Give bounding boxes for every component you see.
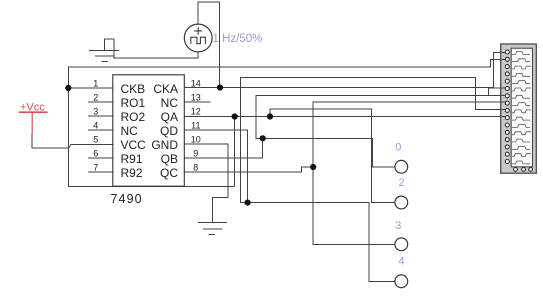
svg-text:GND: GND <box>151 138 178 152</box>
svg-text:RO2: RO2 <box>121 110 146 124</box>
svg-text:8: 8 <box>193 163 198 173</box>
svg-text:7490: 7490 <box>111 192 143 206</box>
svg-text:CKA: CKA <box>153 82 178 96</box>
svg-text:4: 4 <box>93 121 98 131</box>
svg-text:3: 3 <box>93 107 98 117</box>
svg-text:9: 9 <box>193 149 198 159</box>
svg-text:QB: QB <box>161 152 178 166</box>
svg-text:NC: NC <box>121 124 139 138</box>
svg-text:VCC: VCC <box>121 138 147 152</box>
svg-text:RO1: RO1 <box>121 96 146 110</box>
svg-text:6: 6 <box>93 149 98 159</box>
svg-text:1 Hz/50%: 1 Hz/50% <box>213 33 263 45</box>
svg-text:QA: QA <box>161 110 178 124</box>
svg-text:7: 7 <box>93 163 98 173</box>
svg-text:2: 2 <box>399 177 405 189</box>
svg-text:R92: R92 <box>121 166 143 180</box>
svg-text:QD: QD <box>160 124 178 138</box>
svg-text:13: 13 <box>191 93 201 103</box>
svg-text:QC: QC <box>160 166 178 180</box>
svg-text:1: 1 <box>93 79 98 89</box>
svg-text:12: 12 <box>191 107 201 117</box>
svg-text:NC: NC <box>161 96 179 110</box>
svg-text:5: 5 <box>93 135 98 145</box>
svg-text:R91: R91 <box>121 152 143 166</box>
svg-text:3: 3 <box>395 220 401 232</box>
svg-text:10: 10 <box>191 135 201 145</box>
svg-text:11: 11 <box>191 121 200 131</box>
svg-text:2: 2 <box>93 93 98 103</box>
svg-text:14: 14 <box>191 79 201 89</box>
svg-text:4: 4 <box>398 255 404 267</box>
svg-text:+Vcc: +Vcc <box>20 102 45 114</box>
svg-text:CKB: CKB <box>121 82 146 96</box>
svg-text:0: 0 <box>395 141 401 153</box>
